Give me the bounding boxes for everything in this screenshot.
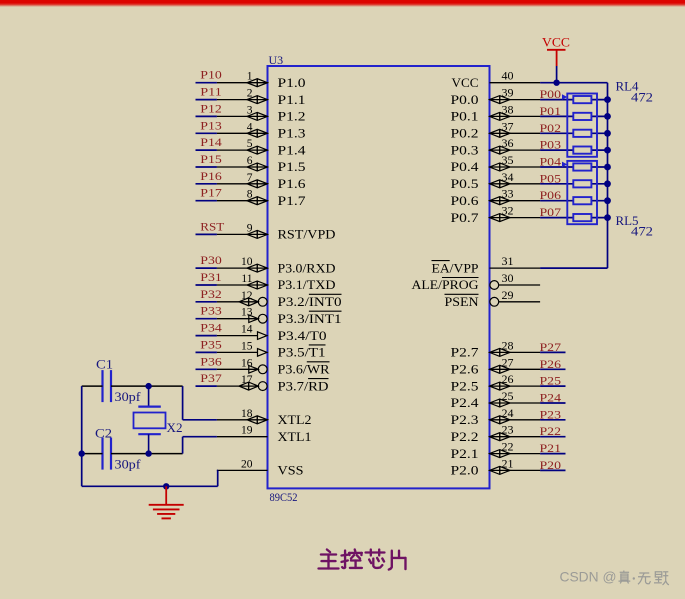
- svg-text:5: 5: [247, 138, 253, 150]
- pin 22 (P2.1) right side: [451, 440, 541, 461]
- svg-text:P1.3: P1.3: [278, 126, 306, 141]
- svg-text:28: 28: [502, 338, 514, 352]
- pin 9 (RST/VPD) left side: [217, 222, 336, 241]
- svg-text:P06: P06: [540, 188, 562, 202]
- pin 13 (P3.3/INT1) left side: [217, 307, 342, 326]
- svg-text:P33: P33: [200, 304, 222, 318]
- overlines for active-low pin names: [307, 261, 479, 379]
- pin 15 (P3.5/T1) left side: [217, 340, 326, 359]
- net label P07 + wire to resistor pack: [540, 205, 608, 219]
- pin 39 (P0.0) right side: [451, 86, 541, 107]
- svg-text:P1.0: P1.0: [278, 75, 306, 90]
- pin 34 (P0.5) right side: [451, 170, 541, 191]
- pin 27 (P2.6) right side: [451, 355, 541, 376]
- svg-text:P3.2/INT0: P3.2/INT0: [278, 294, 342, 309]
- svg-text:P0.7: P0.7: [451, 210, 480, 225]
- pin 28 (P2.7) right side: [451, 338, 541, 359]
- svg-text:22: 22: [502, 440, 514, 454]
- svg-text:P35: P35: [200, 337, 222, 351]
- pin 6 (P1.5) left side: [217, 155, 306, 174]
- svg-text:12: 12: [241, 290, 253, 302]
- net label P02 + wire to resistor pack: [540, 121, 608, 135]
- svg-text:P3.7/RD: P3.7/RD: [278, 378, 329, 393]
- net label P32 + wire stub: [196, 287, 222, 302]
- net label P20 + wire stub: [540, 458, 566, 472]
- svg-text:P34: P34: [200, 321, 222, 335]
- net label P35 + wire stub: [196, 337, 222, 352]
- net label P23 + wire stub: [540, 407, 566, 421]
- net label P16 + wire stub: [196, 169, 222, 184]
- wire pin40 to resistor common / EA: [540, 83, 607, 268]
- title 主控芯片 (main control chip): [319, 550, 406, 570]
- svg-text:P0.3: P0.3: [451, 142, 479, 157]
- svg-text:8: 8: [247, 189, 253, 201]
- svg-text:27: 27: [502, 355, 514, 369]
- svg-text:P3.0/RXD: P3.0/RXD: [278, 260, 336, 275]
- svg-text:CSDN @: CSDN @: [560, 569, 617, 585]
- svg-text:18: 18: [241, 408, 253, 420]
- svg-text:472: 472: [631, 90, 653, 104]
- svg-text:ALE/PROG: ALE/PROG: [412, 277, 479, 292]
- svg-text:31: 31: [502, 254, 514, 268]
- net label P26 + wire stub: [540, 357, 566, 371]
- svg-text:472: 472: [631, 225, 653, 239]
- ground symbol: [149, 486, 184, 518]
- svg-text:10: 10: [241, 256, 253, 268]
- pin 8 (P1.7) left side: [217, 189, 306, 208]
- net label RST + wire stub: [196, 219, 226, 234]
- junction ground: [163, 483, 169, 489]
- svg-text:P2.2: P2.2: [451, 429, 479, 444]
- svg-text:P16: P16: [200, 169, 222, 183]
- wire left rail (C1/C2 to ground rail): [81, 386, 83, 486]
- pin 4 (P1.3) left side: [217, 121, 306, 140]
- svg-text:XTL2: XTL2: [278, 412, 312, 427]
- svg-text:24: 24: [502, 406, 514, 420]
- svg-text:P24: P24: [540, 391, 562, 405]
- svg-text:13: 13: [241, 307, 253, 319]
- svg-text:VCC: VCC: [452, 75, 479, 90]
- svg-text:26: 26: [502, 372, 514, 386]
- pin 20 (VSS) left side: [217, 458, 304, 477]
- pin 19 (XTL1) left side: [217, 425, 312, 444]
- svg-text:P0.1: P0.1: [451, 109, 479, 124]
- pin 12 (P3.2/INT0) left side: [217, 290, 342, 309]
- crystal X2: [134, 386, 183, 454]
- svg-text:P0.0: P0.0: [451, 92, 479, 107]
- power symbol VCC: [542, 36, 570, 67]
- junction resistor row 5 on common rail: [604, 164, 611, 171]
- net label P37 + wire stub: [196, 371, 222, 386]
- svg-text:P1.5: P1.5: [278, 159, 306, 174]
- svg-text:P10: P10: [200, 68, 222, 82]
- wire C2 left to rail: [82, 453, 103, 455]
- net label P34 + wire stub: [196, 321, 222, 336]
- svg-text:15: 15: [241, 340, 253, 352]
- svg-text:U3: U3: [269, 53, 284, 67]
- svg-text:P05: P05: [540, 171, 562, 185]
- svg-text:20: 20: [241, 458, 253, 470]
- svg-text:32: 32: [502, 204, 514, 218]
- svg-text:3: 3: [247, 104, 253, 116]
- svg-text:4: 4: [247, 121, 253, 133]
- svg-text:P1.6: P1.6: [278, 176, 307, 191]
- svg-text:P0.6: P0.6: [451, 193, 480, 208]
- svg-text:P22: P22: [540, 424, 562, 438]
- svg-text:30: 30: [502, 271, 514, 285]
- svg-text:37: 37: [502, 119, 514, 133]
- net label P30 + wire stub: [196, 253, 222, 268]
- svg-text:35: 35: [502, 153, 514, 167]
- svg-text:2: 2: [247, 88, 253, 100]
- svg-text:29: 29: [502, 288, 514, 302]
- svg-text:VSS: VSS: [278, 463, 304, 478]
- net label P13 + wire stub: [196, 118, 222, 133]
- net label P24 + wire stub: [540, 391, 566, 405]
- svg-text:38: 38: [502, 102, 514, 116]
- junction crystal bottom: [145, 450, 151, 456]
- net label P17 + wire stub: [196, 186, 222, 201]
- pin 14 (P3.4/T0) left side: [217, 324, 327, 343]
- svg-text:17: 17: [241, 374, 253, 386]
- pin 26 (P2.5) right side: [451, 372, 541, 393]
- svg-text:P2.4: P2.4: [451, 395, 480, 410]
- svg-text:P0.4: P0.4: [451, 159, 480, 174]
- pin 35 (P0.4) right side: [451, 153, 541, 174]
- capacitor C1 30pf: [96, 358, 141, 405]
- net label P31 + wire stub: [196, 270, 222, 285]
- net label P10 + wire stub: [196, 68, 222, 83]
- svg-text:P21: P21: [540, 441, 562, 455]
- svg-text:P3.1/TXD: P3.1/TXD: [278, 277, 336, 292]
- pin 18 (XTL2) left side: [217, 408, 312, 427]
- svg-text:7: 7: [247, 172, 253, 184]
- svg-text:P07: P07: [540, 205, 562, 219]
- pin 23 (P2.2) right side: [451, 423, 541, 444]
- svg-text:21: 21: [502, 456, 514, 470]
- svg-text:P00: P00: [540, 87, 562, 101]
- svg-text:P03: P03: [540, 138, 562, 152]
- junction crystal top: [145, 383, 151, 389]
- svg-text:P2.5: P2.5: [451, 378, 479, 393]
- svg-text:P25: P25: [540, 374, 562, 388]
- svg-text:11: 11: [241, 273, 252, 285]
- net label P01 + wire to resistor pack: [540, 104, 608, 118]
- net label P05 + wire to resistor pack: [540, 171, 608, 185]
- pin 25 (P2.4) right side: [451, 389, 541, 410]
- svg-text:25: 25: [502, 389, 514, 403]
- net label P21 + wire stub: [540, 441, 566, 455]
- svg-text:1: 1: [247, 71, 253, 83]
- svg-text:RST: RST: [200, 219, 225, 233]
- svg-text:XTL1: XTL1: [278, 429, 312, 444]
- svg-text:33: 33: [502, 187, 514, 201]
- net label P25 + wire stub: [540, 374, 566, 388]
- svg-text:C1: C1: [96, 358, 113, 372]
- svg-text:P26: P26: [540, 357, 562, 371]
- svg-text:P2.1: P2.1: [451, 446, 479, 461]
- net label P00 + wire to resistor pack: [540, 87, 608, 101]
- junction resistor row 1 on common rail: [604, 96, 611, 103]
- svg-text:P20: P20: [540, 458, 562, 472]
- pin 1 (P1.0) left side: [217, 71, 306, 90]
- svg-text:P0.2: P0.2: [451, 126, 479, 141]
- pin 7 (P1.6) left side: [217, 172, 306, 191]
- svg-text:6: 6: [247, 155, 253, 167]
- svg-text:P32: P32: [200, 287, 222, 301]
- svg-text:39: 39: [502, 86, 514, 100]
- net label P27 + wire stub: [540, 340, 566, 354]
- wire C2 right to XTL1 corner: [111, 437, 217, 454]
- svg-text:P36: P36: [200, 354, 222, 368]
- resistor network RL5 472: [562, 161, 653, 239]
- svg-text:30pf: 30pf: [115, 390, 142, 404]
- pin 29 (PSEN) right side: [445, 288, 541, 309]
- junction resistor row 7 on common rail: [604, 197, 611, 204]
- resistor network RL4 472: [562, 80, 653, 157]
- net label P22 + wire stub: [540, 424, 566, 438]
- junction resistor row 6 on common rail: [604, 180, 611, 187]
- pin 17 (P3.7/RD) left side: [217, 374, 329, 393]
- svg-text:RST/VPD: RST/VPD: [278, 227, 336, 242]
- svg-text:P1.2: P1.2: [278, 109, 306, 124]
- pin 36 (P0.3) right side: [451, 136, 541, 157]
- pin 3 (P1.2) left side: [217, 104, 306, 123]
- pin 40 (VCC) right side: [452, 69, 541, 90]
- svg-text:P37: P37: [200, 371, 222, 385]
- svg-text:P17: P17: [200, 186, 222, 200]
- svg-text:X2: X2: [167, 421, 183, 435]
- svg-text:40: 40: [502, 69, 514, 83]
- net label P15 + wire stub: [196, 152, 222, 167]
- pin 5 (P1.4) left side: [217, 138, 306, 157]
- svg-text:30pf: 30pf: [115, 458, 142, 472]
- svg-text:P15: P15: [200, 152, 222, 166]
- net label P12 + wire stub: [196, 101, 222, 116]
- capacitor C2 30pf: [95, 427, 141, 472]
- svg-text:P11: P11: [200, 85, 222, 99]
- svg-text:89C52: 89C52: [270, 490, 298, 504]
- junction resistor row 4 on common rail: [604, 147, 611, 154]
- svg-text:P02: P02: [540, 121, 562, 135]
- svg-text:23: 23: [502, 423, 514, 437]
- pin 30 (ALE/PROG) right side: [412, 271, 541, 292]
- svg-text:P3.5/T1: P3.5/T1: [278, 345, 326, 360]
- svg-text:P01: P01: [540, 104, 562, 118]
- watermark CSDN @真·无题: [560, 569, 669, 585]
- svg-text:P12: P12: [200, 101, 222, 115]
- wire bottom ground rail to VSS pin 20: [82, 470, 218, 486]
- net label P36 + wire stub: [196, 354, 222, 369]
- svg-text:34: 34: [502, 170, 514, 184]
- pin 10 (P3.0/RXD) left side: [217, 256, 336, 275]
- junction pin40/VCC: [553, 80, 559, 86]
- junction resistor row 3 on common rail: [604, 130, 611, 137]
- IC U3 89C52 chip body: [268, 53, 490, 504]
- svg-text:P27: P27: [540, 340, 562, 354]
- pin 32 (P0.7) right side: [451, 204, 541, 225]
- net label P04 + wire to resistor pack: [540, 155, 608, 169]
- svg-text:P2.6: P2.6: [451, 362, 480, 377]
- pin 2 (P1.1) left side: [217, 88, 306, 107]
- pin 11 (P3.1/TXD) left side: [217, 273, 336, 292]
- pin 37 (P0.2) right side: [451, 119, 541, 140]
- net label P06 + wire to resistor pack: [540, 188, 608, 202]
- svg-text:9: 9: [247, 222, 253, 234]
- svg-text:P23: P23: [540, 407, 562, 421]
- svg-text:P2.3: P2.3: [451, 412, 479, 427]
- pin 38 (P0.1) right side: [451, 102, 541, 123]
- svg-text:P04: P04: [540, 155, 562, 169]
- svg-text:P0.5: P0.5: [451, 176, 479, 191]
- svg-text:C2: C2: [95, 427, 112, 441]
- svg-text:P3.4/T0: P3.4/T0: [278, 328, 327, 343]
- net label P33 + wire stub: [196, 304, 222, 319]
- net label P11 + wire stub: [196, 85, 222, 100]
- wire C1 left to rail: [82, 385, 103, 387]
- svg-text:P2.0: P2.0: [451, 463, 479, 478]
- svg-text:EA/VPP: EA/VPP: [432, 260, 479, 275]
- pin 33 (P0.6) right side: [451, 187, 541, 208]
- svg-text:P3.6/WR: P3.6/WR: [278, 362, 330, 377]
- junction resistor row 8 on common rail: [604, 214, 611, 221]
- net label P14 + wire stub: [196, 135, 222, 150]
- svg-text:P14: P14: [200, 135, 222, 149]
- svg-text:PSEN: PSEN: [445, 294, 480, 309]
- pin 31 (EA/VPP) right side: [432, 254, 541, 275]
- svg-text:P30: P30: [200, 253, 222, 267]
- svg-text:P2.7: P2.7: [451, 345, 480, 360]
- pin 21 (P2.0) right side: [451, 456, 541, 477]
- svg-text:P1.4: P1.4: [278, 142, 307, 157]
- svg-text:16: 16: [241, 357, 253, 369]
- svg-text:VCC: VCC: [542, 36, 570, 50]
- net label P03 + wire to resistor pack: [540, 138, 608, 152]
- junction resistor row 2 on common rail: [604, 113, 611, 120]
- junction C2/rail: [79, 450, 85, 456]
- wire C1 right to XTL2 corner: [111, 386, 217, 420]
- pin 16 (P3.6/WR) left side: [217, 357, 330, 376]
- svg-text:P1.7: P1.7: [278, 193, 307, 208]
- wire VCC down to pin 40 net: [556, 66, 558, 83]
- pin 24 (P2.3) right side: [451, 406, 541, 427]
- svg-text:14: 14: [241, 324, 253, 336]
- svg-text:P13: P13: [200, 118, 222, 132]
- svg-text:19: 19: [241, 425, 253, 437]
- svg-text:P31: P31: [200, 270, 222, 284]
- svg-text:P1.1: P1.1: [278, 92, 306, 107]
- svg-text:36: 36: [502, 136, 514, 150]
- svg-text:P3.3/INT1: P3.3/INT1: [278, 311, 342, 326]
